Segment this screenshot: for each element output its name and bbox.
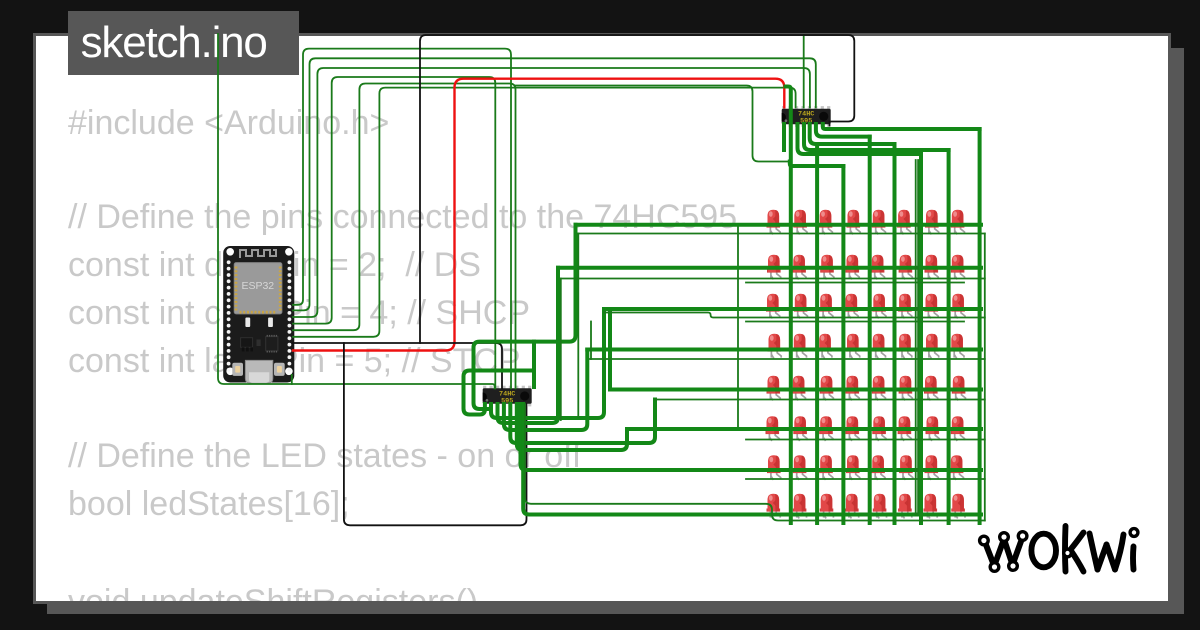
column bus 8 vertical: [978, 129, 982, 523]
LED row7 col1: [767, 455, 781, 480]
right-side return rail: [984, 234, 986, 521]
wire ESP32 GPIO to LED grid left rail (bracket D): [293, 77, 495, 388]
detour wire to column bus 3 feed: [516, 86, 790, 162]
row 2 return line: [561, 278, 985, 280]
LED row4 col4: [846, 334, 860, 359]
wire ESP32 GPIO to shift register 2 data (bracket A): [293, 49, 511, 389]
black tick at shift register1 pin9: [829, 122, 831, 126]
thick vertical above shift register 2 right side: [532, 342, 536, 387]
thick staple wire into shift register 2 pin1 (outer U): [464, 371, 535, 415]
LED row3 col1: [766, 294, 780, 319]
wire shift1 Q to column bus 6: [798, 124, 922, 154]
return wire near column bus 6 a: [915, 160, 917, 515]
wire ESP32 GPIO to shift register 1 pin5 (bracket C): [293, 68, 810, 317]
row 6 staircase to chip2: [517, 404, 627, 450]
LED row5 col5: [872, 376, 886, 401]
wire shift1 Q to column bus 7: [804, 124, 949, 150]
LED row6 col2: [793, 416, 807, 441]
row 3 extra return line: [746, 321, 964, 323]
LED row8 col5: [873, 494, 887, 519]
row 4 staircase to chip2: [504, 350, 587, 431]
LED row5 col7: [924, 376, 938, 401]
row 1 staircase U to chip2: [474, 225, 576, 409]
LED row4 col5: [872, 334, 886, 359]
black wire branch via top edge to shift register 1 pin9: [420, 35, 854, 343]
LED row4 col7: [925, 334, 939, 359]
row 2 extra return line: [746, 282, 964, 284]
return wire near column bus 6 b: [917, 160, 919, 515]
LED row2 col8: [951, 255, 965, 280]
LED row7 col5: [871, 455, 885, 480]
LED row1 col2: [793, 210, 807, 235]
svg-text:ESP32: ESP32: [241, 280, 274, 292]
LED row1 col6: [897, 210, 911, 235]
black wire ESP32 to shift register 2 pin top: [293, 343, 502, 388]
LED row2 col3: [820, 255, 834, 280]
LED row3 col3: [819, 294, 833, 319]
LED row1 col3: [819, 210, 833, 235]
LED row3 col7: [925, 294, 939, 319]
row 3 line: [604, 307, 981, 311]
LED row1 col1: [767, 210, 781, 235]
LED row5 col8: [952, 376, 966, 401]
LED row3 col4: [845, 294, 859, 319]
sketch.ino tab label: [68, 11, 299, 75]
wire ESP32 GPIO to shift register 1 pin6 (bracket B): [293, 58, 816, 310]
LED row1 col5: [872, 210, 886, 235]
wire top edge via left side to shift register 2 pin1: [218, 34, 495, 388]
LED row6 col8: [951, 416, 965, 441]
row 7 return line: [746, 478, 985, 480]
row 2 staircase to chip2: [498, 268, 559, 423]
wire from top edge to shift register 1 pin4: [803, 35, 805, 107]
column bus 2 vertical: [815, 144, 819, 523]
LED row8 col7: [924, 494, 938, 519]
row 6 return line: [746, 439, 985, 441]
row 5 feed from above: [608, 313, 612, 390]
row 5 thin staircase to chip2: [510, 400, 655, 444]
black wire branch to shift register 2 pin9 (bottom box): [344, 343, 527, 525]
row 8 return line from shift register 2: [525, 404, 985, 521]
LED row7 col6: [899, 455, 913, 480]
row 5 return line: [655, 399, 985, 401]
LED row3 col8: [951, 294, 965, 319]
LED row4 col2: [793, 334, 807, 359]
red supply wire ESP32 to shift register 1 pin1: [293, 79, 784, 351]
LED row7 col2: [793, 455, 807, 480]
row 2 return staircase: [560, 279, 562, 421]
LED row8 col4: [845, 494, 859, 519]
row 1 line with staircase to shift register 2 pin15: [576, 223, 982, 227]
row 4 line: [587, 348, 981, 352]
74HC595 shift register U3: [483, 386, 532, 407]
wire shift1 pin1 bottom stub: [782, 124, 786, 150]
LED row4 col6: [898, 334, 912, 359]
wire ESP32 GPIO to shift register 1 pin3 (bracket F): [293, 88, 796, 337]
LED row2 col6: [899, 255, 913, 280]
LED row7 col4: [846, 455, 860, 480]
row 3 staircase to chip2: [491, 309, 604, 418]
LED row8 col6: [898, 494, 912, 519]
LED row1 col7: [925, 210, 939, 235]
wire shift1 Q to column bus 8: [823, 124, 980, 129]
LED row4 col8: [950, 334, 964, 359]
LED row4 col1: [768, 334, 782, 359]
row 1 return line: [578, 233, 985, 235]
LED row1 col8: [951, 210, 965, 235]
row 6 line: [627, 427, 981, 431]
LED row2 col4: [846, 255, 860, 280]
column bus 3 vertical: [841, 166, 845, 523]
LED row2 col1: [767, 255, 781, 280]
LED row6 col1: [766, 416, 780, 441]
LED row6 col3: [819, 416, 833, 441]
LED row8 col8: [951, 494, 965, 519]
LED row3 col2: [794, 294, 808, 319]
WOKWI logo: [985, 526, 1134, 572]
row 4 return line: [590, 358, 985, 360]
LED row5 col2: [792, 376, 806, 401]
74HC595 shift register U2: [782, 106, 831, 127]
LED row2 col7: [925, 255, 939, 280]
column bus 6 vertical: [919, 154, 923, 523]
column bus 5 vertical: [893, 144, 897, 523]
column bus 7 vertical: [947, 150, 951, 523]
LED row5 col1: [767, 376, 781, 401]
LED row3 col5: [872, 294, 886, 319]
LED row8 col2: [793, 494, 807, 519]
row 7 line from shift register 2: [521, 404, 982, 470]
junction branch up to ESP32 bottom pin: [291, 375, 293, 384]
wire shift1 Q to column bus 5: [810, 124, 895, 144]
ESP32 dev board U1: [223, 246, 294, 383]
LED row1 col4: [847, 210, 861, 235]
LED row6 col7: [926, 416, 940, 441]
column bus 4 vertical: [868, 137, 872, 523]
LED row3 col6: [898, 294, 912, 319]
column bus 3 feed: [790, 162, 844, 167]
row 3 return line: [604, 313, 985, 318]
LED row7 col3: [819, 455, 833, 480]
row 1 return staircase: [577, 234, 579, 418]
LED row5 col4: [846, 376, 860, 401]
LED row6 col5: [872, 416, 886, 441]
LED row5 col6: [899, 376, 913, 401]
LED row5 col3: [820, 376, 834, 401]
row 4 thin upward link: [590, 322, 592, 360]
wire ESP32 GPIO to shift register 2 clock (bracket E): [293, 84, 516, 389]
LED row7 col7: [925, 455, 939, 480]
LED row6 col4: [846, 416, 860, 441]
row 8 line from shift register 2: [523, 404, 981, 515]
column bus 1 (through chip1): [786, 87, 791, 524]
LED row8 col3: [820, 494, 834, 519]
row 2 line: [558, 266, 981, 270]
LED row7 col8: [950, 455, 964, 480]
LED row4 col3: [818, 334, 832, 359]
row 5 line: [610, 388, 981, 392]
left rail in LED grid: [737, 225, 739, 430]
wire shift1 Q to column bus 4: [816, 124, 870, 137]
LED row2 col2: [792, 255, 806, 280]
LED row2 col5: [871, 255, 885, 280]
LED row6 col6: [898, 416, 912, 441]
LED row8 col1: [767, 494, 781, 519]
